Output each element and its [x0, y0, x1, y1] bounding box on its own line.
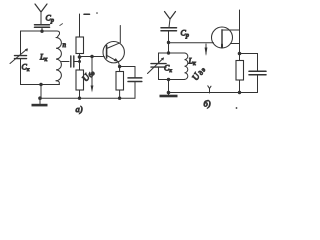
capacitor Cp2 (antenna coupling) [161, 28, 177, 43]
wire cap branch [240, 54, 258, 72]
label minus supply [84, 13, 90, 15]
wire tank top rail [21, 30, 58, 32]
resistor R2 (lower bias) [76, 70, 84, 90]
node R2 rail [78, 97, 81, 100]
mark gamma tick [208, 86, 211, 93]
node U-arrow junction [90, 55, 93, 58]
node ground junction [38, 96, 42, 100]
inductor Lk [56, 31, 61, 85]
inductor Lk2 [185, 53, 188, 79]
antenna WA2 [165, 12, 176, 28]
node antenna junction 2 [167, 41, 170, 44]
wire tank bottom rail 2 [159, 79, 185, 81]
wire left leg down to Ck [20, 31, 22, 55]
svg-text:Cк: Cк [22, 63, 30, 74]
ground 2 [160, 93, 178, 98]
wire tank to ground rail [40, 85, 42, 99]
voltage arrow Ube [91, 57, 94, 93]
wire R1 to base [79, 54, 81, 57]
capacitor Ck (variable tuning) [10, 49, 28, 85]
wire to R4 [239, 54, 241, 61]
wire emitter to node [118, 62, 119, 67]
resistor R4 (load) [236, 61, 244, 81]
node emitter junction [118, 65, 121, 68]
node R3 rail [118, 97, 121, 100]
svg-text:Cк: Cк [164, 64, 172, 75]
wire R2 to rail [79, 90, 81, 98]
wire cap to base node [74, 57, 80, 62]
voltage arrow Ud [205, 44, 208, 56]
wire emitter branch right [120, 67, 135, 78]
svg-text:Cp: Cp [46, 14, 54, 25]
wire tank top rail 2 [159, 52, 185, 54]
wire collector up [119, 26, 121, 43]
wire R4 to rail [239, 80, 241, 93]
wire cap leg top [158, 53, 160, 63]
speck 2 [236, 107, 238, 109]
node antenna junction [40, 30, 43, 33]
wire bottom rail 2 [169, 92, 258, 94]
antenna WA1 [35, 4, 47, 25]
svg-text:б): б) [204, 99, 211, 109]
capacitor Ck2 (variable tuning) [148, 58, 167, 80]
wire supply [79, 14, 81, 37]
capacitor C2 (coupling to base) [71, 56, 74, 67]
wire feed to tube [169, 42, 214, 44]
wire tube right stub [231, 43, 240, 45]
speck 3 [60, 24, 63, 26]
wire emitter to R3 [119, 67, 121, 72]
svg-text:Lк: Lк [39, 53, 47, 64]
resistor R3 (emitter) [116, 72, 124, 91]
node tank-bottom junction [39, 83, 42, 86]
node load junction [238, 52, 242, 56]
wire base to R2 [79, 62, 81, 71]
wire output vertical [239, 10, 241, 54]
wire tank bottom rail [21, 84, 60, 86]
tube V1 (diode) [212, 27, 240, 48]
wire base line [80, 56, 105, 58]
node ground junction 2 [167, 91, 171, 95]
svg-text:а): а) [76, 104, 83, 114]
transistor VT1 [103, 42, 124, 63]
svg-text:Lк: Lк [188, 57, 196, 68]
wire bottom rail [40, 97, 136, 99]
capacitor C4 (load) [249, 71, 266, 92]
capacitor Cp (antenna coupling) [35, 25, 50, 31]
svg-text:Cp: Cp [181, 29, 189, 40]
wire junction to tank [168, 43, 170, 54]
resistor R1 (upper bias) [76, 37, 84, 54]
ground [32, 98, 48, 106]
node base divider junction [78, 55, 82, 59]
capacitor C3 (emitter bypass) [128, 78, 142, 98]
node tank top junction [167, 51, 170, 54]
speck [96, 12, 98, 14]
wire tank to ground 2 [168, 80, 170, 93]
wire R3 to rail [119, 90, 121, 98]
svg-text:п: п [63, 41, 67, 49]
node tank bottom junction 2 [167, 78, 170, 81]
node R4 rail [238, 91, 241, 94]
wire coil tap [62, 61, 70, 63]
